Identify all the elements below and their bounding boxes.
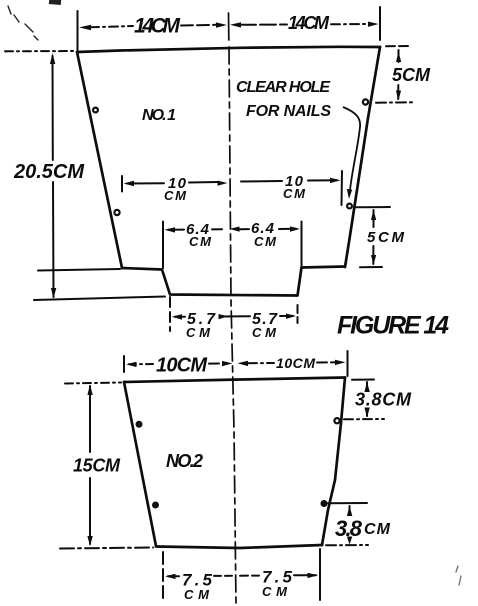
svg-text:CLEAR HOLE: CLEAR HOLE bbox=[236, 79, 332, 96]
svg-text:14CM: 14CM bbox=[288, 13, 330, 33]
svg-text:10CM: 10CM bbox=[156, 355, 208, 377]
svg-text:3.8CM: 3.8CM bbox=[355, 390, 412, 410]
svg-text:5CM: 5CM bbox=[367, 229, 405, 246]
svg-text:CM: CM bbox=[164, 188, 187, 203]
svg-text:CM: CM bbox=[186, 325, 211, 340]
svg-text:NO. 1: NO. 1 bbox=[142, 107, 176, 124]
svg-text:3.8: 3.8 bbox=[335, 516, 363, 541]
svg-text:NO.2: NO.2 bbox=[166, 451, 203, 471]
svg-text:FOR NAILS: FOR NAILS bbox=[246, 103, 333, 120]
svg-text:5CM: 5CM bbox=[392, 65, 431, 85]
svg-text:CM: CM bbox=[283, 186, 306, 201]
svg-text:CM: CM bbox=[364, 521, 391, 538]
svg-text:FIGURE 14: FIGURE 14 bbox=[337, 312, 449, 340]
svg-text:20.5CM: 20.5CM bbox=[13, 161, 85, 183]
svg-text:CM: CM bbox=[254, 234, 277, 249]
svg-text:CM: CM bbox=[252, 325, 277, 340]
svg-text:15CM: 15CM bbox=[73, 456, 121, 476]
svg-text:CM: CM bbox=[189, 234, 212, 249]
svg-text:14CM: 14CM bbox=[134, 15, 181, 38]
svg-text:10CM: 10CM bbox=[276, 355, 315, 371]
